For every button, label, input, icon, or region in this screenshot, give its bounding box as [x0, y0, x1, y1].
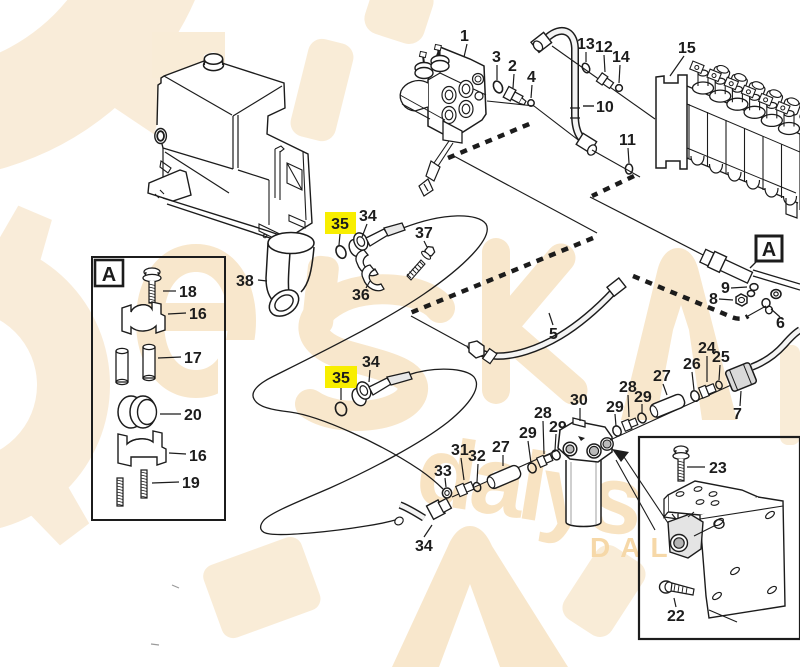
- svg-text:15: 15: [678, 40, 696, 57]
- label 7: [733, 391, 742, 423]
- svg-text:14: 14: [612, 49, 630, 66]
- svg-text:29: 29: [519, 425, 537, 442]
- label 27 (left): [492, 439, 510, 466]
- svg-text:34: 34: [415, 538, 433, 555]
- highlight 35 (upper): [325, 212, 356, 245]
- svg-text:34: 34: [362, 354, 380, 371]
- label 32: [468, 448, 486, 482]
- svg-text:29: 29: [634, 389, 652, 406]
- svg-text:25: 25: [712, 349, 730, 366]
- label 12: [595, 39, 613, 72]
- elbow 38: [264, 233, 314, 322]
- o-ring 29 d: [636, 412, 647, 424]
- label 34 (bottom): [415, 525, 433, 555]
- wire valve to corner Y: [452, 155, 597, 233]
- o-ring 26: [689, 389, 700, 402]
- label 11: [619, 132, 636, 163]
- label 20: [160, 407, 202, 424]
- svg-text:17: 17: [184, 350, 202, 367]
- svg-text:2: 2: [508, 58, 517, 75]
- washers 9: [747, 284, 758, 297]
- label 36: [352, 281, 370, 304]
- clamp half 16 (upper): [122, 302, 165, 334]
- label 23: [687, 460, 727, 477]
- stray mark 2: [151, 644, 159, 645]
- label 29 c: [606, 399, 624, 426]
- svg-text:8: 8: [709, 291, 718, 308]
- o-ring 11: [625, 164, 632, 174]
- fitting 12: [596, 73, 614, 90]
- o-ring 29 b: [550, 449, 561, 461]
- label 30: [570, 392, 588, 421]
- o-ring 32: [472, 481, 482, 492]
- label 33: [434, 463, 452, 487]
- label 27 (right): [653, 368, 671, 395]
- fitting 34 (upper): [345, 223, 405, 259]
- fitting assembly A: [699, 248, 800, 290]
- svg-text:35: 35: [331, 216, 349, 233]
- o-ring 6: [762, 299, 772, 314]
- nut 33: [442, 488, 451, 498]
- svg-text:19: 19: [182, 475, 200, 492]
- valve bank 15: [656, 61, 800, 218]
- svg-text:3: 3: [492, 49, 501, 66]
- clamp half 16 (lower): [118, 431, 166, 466]
- svg-text:5: 5: [549, 326, 558, 343]
- tube 27 (right): [648, 393, 686, 419]
- label 29 b: [549, 419, 567, 450]
- dashed route ring11 corner: [592, 176, 634, 196]
- fitting 31: [456, 480, 475, 496]
- svg-text:20: 20: [184, 407, 202, 424]
- dashed route hose5 to A: [633, 276, 748, 319]
- svg-text:6: 6: [776, 315, 785, 332]
- label 2: [508, 58, 517, 88]
- svg-text:18: 18: [179, 284, 197, 301]
- wire corner to fitting A: [590, 197, 707, 257]
- label 31: [451, 442, 469, 480]
- o-ring 29 c: [611, 425, 622, 438]
- fitting 28 b: [622, 417, 639, 432]
- label 8: [709, 291, 733, 308]
- label 29 d: [634, 389, 652, 413]
- svg-text:35: 35: [332, 370, 350, 387]
- svg-text:23: 23: [709, 460, 727, 477]
- label 18: [163, 284, 197, 301]
- label 34 (upper): [359, 208, 377, 237]
- bolt 37: [407, 244, 437, 280]
- svg-text:4: 4: [527, 69, 536, 86]
- svg-text:13: 13: [577, 36, 595, 53]
- wire Y to hose5: [411, 316, 466, 346]
- svg-text:1: 1: [460, 28, 469, 45]
- label 5: [549, 313, 558, 343]
- svg-text:10: 10: [596, 99, 614, 116]
- clamp 36: [356, 250, 384, 291]
- o-ring 13: [581, 62, 591, 74]
- detail arrow to filter: [612, 449, 668, 530]
- svg-text:37: 37: [415, 225, 433, 242]
- svg-text:30: 30: [570, 392, 588, 409]
- filter assembly 30: [558, 418, 613, 527]
- wire hose10 to ring11: [592, 150, 640, 177]
- roller 20: [118, 396, 157, 428]
- label 28 a: [534, 405, 552, 454]
- label 24: [698, 340, 716, 382]
- label 26: [683, 356, 701, 390]
- fitting 28 a: [537, 453, 554, 468]
- valve (inset): [668, 512, 724, 558]
- dashed route Y: [410, 238, 593, 313]
- detail box A frame: [92, 257, 225, 520]
- label 15: [670, 40, 696, 76]
- label 3: [492, 49, 501, 80]
- svg-text:36: 36: [352, 287, 370, 304]
- svg-text:12: 12: [595, 39, 613, 56]
- label 1: [460, 28, 469, 57]
- wire elbow to filter: [452, 449, 560, 497]
- label 16 (lower): [169, 448, 207, 465]
- label 4: [527, 69, 536, 98]
- hose fitting 7: [725, 330, 800, 392]
- elbow fitting 34 (bottom): [393, 496, 452, 526]
- o-ring 29 a: [526, 462, 537, 474]
- fitting 24: [699, 382, 717, 398]
- label 29 a: [519, 425, 537, 463]
- o-ring 3: [492, 80, 505, 95]
- hydraulic tank: [148, 52, 312, 245]
- label 25: [712, 349, 730, 380]
- hose 10: [531, 31, 598, 157]
- svg-text:22: 22: [667, 608, 685, 625]
- bolt 18: [143, 268, 161, 304]
- svg-text:38: 38: [236, 273, 254, 290]
- wire hose10 to bank: [552, 46, 655, 119]
- tube 27 (left): [485, 464, 522, 490]
- label 19: [152, 475, 200, 492]
- wire valve1 to hose10: [487, 101, 590, 149]
- fitting 2: [503, 86, 528, 107]
- svg-text:34: 34: [359, 208, 377, 225]
- label 10: [583, 99, 614, 116]
- dashed route valve to hose10: [448, 122, 534, 158]
- svg-text:32: 32: [468, 448, 486, 465]
- wire loop 2: [261, 369, 477, 534]
- label 17: [158, 350, 202, 367]
- screws 19: [117, 470, 147, 506]
- label 34 (lower): [362, 354, 380, 382]
- label 6: [771, 309, 785, 332]
- label 22: [667, 598, 685, 625]
- label 37: [415, 225, 433, 247]
- bolt 23: [673, 446, 689, 481]
- svg-text:31: 31: [451, 442, 469, 459]
- svg-text:33: 33: [434, 463, 452, 480]
- svg-text:29: 29: [606, 399, 624, 416]
- svg-text:26: 26: [683, 356, 701, 373]
- nut pair right: [771, 290, 781, 299]
- svg-text:7: 7: [733, 406, 742, 423]
- label 38: [236, 273, 267, 290]
- label 13: [577, 36, 595, 62]
- svg-text:16: 16: [189, 448, 207, 465]
- frame label A (right): [750, 236, 782, 268]
- hose 5: [469, 278, 626, 364]
- o-ring 35 (lower): [334, 401, 349, 417]
- control valve 1: [400, 44, 486, 196]
- label 14: [612, 49, 630, 83]
- o-ring 25: [715, 380, 724, 390]
- bolt 22: [660, 581, 695, 595]
- o-ring 14: [616, 85, 623, 92]
- svg-text:27: 27: [653, 368, 671, 385]
- wire loop 1: [253, 216, 487, 489]
- svg-text:27: 27: [492, 439, 510, 456]
- fitting 34 (lower): [348, 372, 412, 408]
- highlight 35 (lower): [325, 366, 357, 400]
- watermark text: [136, 238, 737, 667]
- pins 17: [116, 344, 155, 384]
- o-ring 4: [528, 100, 534, 106]
- svg-text:11: 11: [619, 132, 636, 149]
- label 9: [721, 280, 747, 297]
- label 16 (upper): [168, 306, 207, 323]
- svg-text:A: A: [102, 264, 116, 286]
- svg-text:16: 16: [189, 306, 207, 323]
- wire to o-ring 6: [748, 306, 766, 316]
- nut 8: [736, 294, 747, 306]
- label 28 b: [619, 379, 637, 417]
- bracket (inset): [664, 481, 785, 622]
- svg-text:9: 9: [721, 280, 730, 297]
- stray mark 1: [172, 585, 179, 588]
- wire row right: [610, 381, 740, 440]
- o-ring 35 (upper): [334, 244, 348, 260]
- svg-text:A: A: [762, 239, 776, 261]
- inset box frame: [639, 437, 800, 639]
